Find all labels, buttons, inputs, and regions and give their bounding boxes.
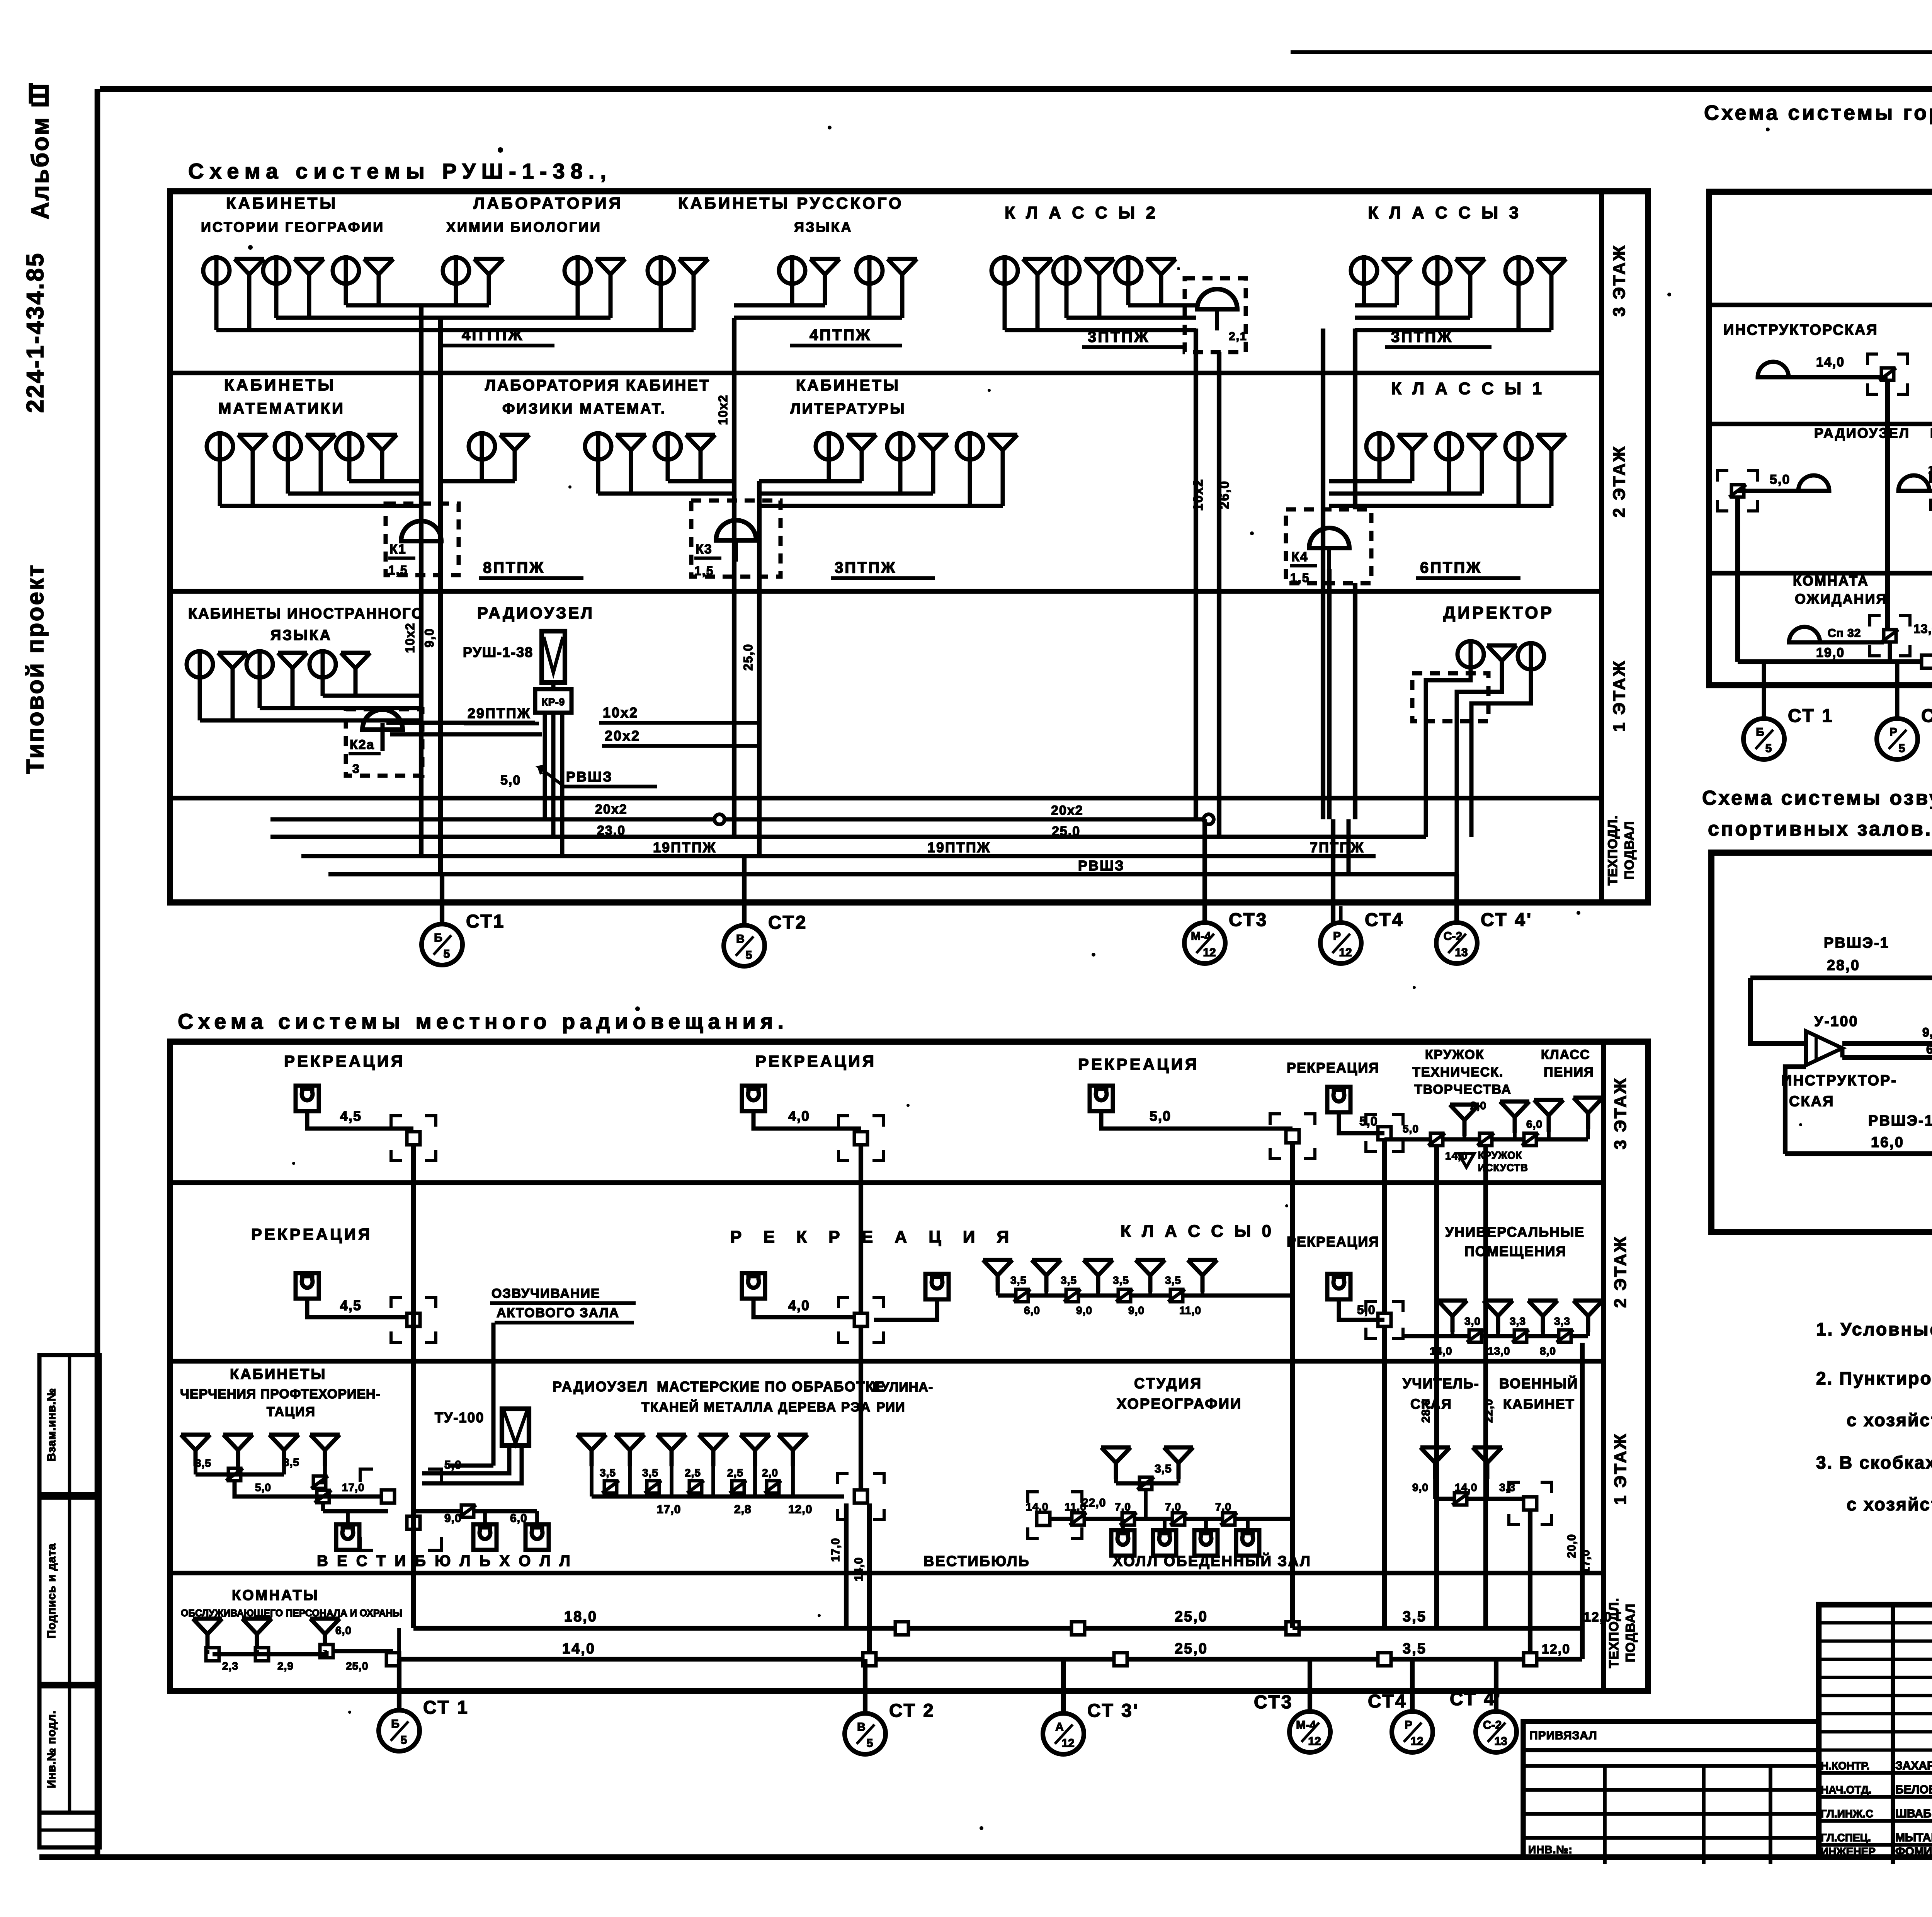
wire: [323, 1509, 388, 1514]
junction: [1064, 1289, 1081, 1302]
junction: [1524, 1653, 1537, 1666]
horn loudspeaker: [1758, 362, 1789, 377]
subscriber loudspeaker pair: [1115, 255, 1176, 291]
svg-text:6,0: 6,0: [510, 1512, 527, 1525]
wire: [421, 316, 611, 320]
box1 floor divider 1/basement: [170, 796, 1602, 800]
loudspeaker: [1438, 1301, 1467, 1332]
svg-text:3: 3: [352, 762, 360, 776]
loudspeaker: [1573, 1301, 1603, 1332]
svg-text:КОМНАТЫ: КОМНАТЫ: [232, 1587, 319, 1604]
svg-text:ТЕХПОДЛ.: ТЕХПОДЛ.: [1605, 815, 1620, 885]
svg-text:ПОДВАЛ: ПОДВАЛ: [1622, 821, 1637, 880]
svg-text:ПРИВЯЗАЛ: ПРИВЯЗАЛ: [1529, 1729, 1597, 1742]
svg-text:1 ЭТАЖ: 1 ЭТАЖ: [1611, 1432, 1630, 1505]
svg-text:КАБИНЕТЫ: КАБИНЕТЫ: [230, 1366, 327, 1382]
svg-text:14,0: 14,0: [1430, 1345, 1452, 1357]
relay K1 dome: [401, 521, 441, 541]
stub to CT3: [1202, 819, 1207, 923]
svg-text:10х2: 10х2: [716, 394, 730, 425]
basement bus 19ПТПЖ: [301, 854, 1376, 858]
loudspeaker: [1528, 1301, 1558, 1332]
director loudspeaker: [1487, 645, 1517, 677]
wire bus: [1384, 1137, 1588, 1142]
svg-text:К Л А С С Ы 2: К Л А С С Ы 2: [1005, 203, 1158, 222]
svg-text:СТУДИЯ: СТУДИЯ: [1134, 1376, 1202, 1392]
subscriber loudspeaker pair: [565, 255, 625, 291]
wall speaker: [526, 1524, 549, 1550]
svg-text:СТ 1: СТ 1: [423, 1697, 469, 1718]
stub to CT2: [742, 856, 747, 926]
svg-text:КАБИНЕТЫ ИНОСТРАННОГО: КАБИНЕТЫ ИНОСТРАННОГО: [188, 606, 424, 622]
svg-text:ПОДВАЛ: ПОДВАЛ: [1623, 1604, 1638, 1662]
loudspeaker: [1500, 1102, 1529, 1133]
wire: [1144, 1490, 1148, 1519]
wire: [759, 504, 1003, 508]
box3 floor divider 2/1: [1709, 422, 1932, 426]
svg-text:9,0: 9,0: [422, 628, 436, 647]
svg-text:ЧЕРЧЕНИЯ ПРОФТЕХОРИЕН-: ЧЕРЧЕНИЯ ПРОФТЕХОРИЕН-: [180, 1387, 381, 1401]
svg-text:25,0: 25,0: [741, 644, 755, 671]
subscriber loudspeaker pair: [1505, 431, 1566, 466]
subscriber loudspeaker pair: [655, 431, 715, 466]
amplifier У-100: [1806, 1031, 1842, 1065]
svg-text:12: 12: [1203, 946, 1216, 959]
junction: [730, 1481, 747, 1493]
svg-text:3,3: 3,3: [1554, 1315, 1570, 1327]
junction: [206, 1648, 219, 1661]
svg-text:12: 12: [1308, 1735, 1321, 1748]
riser kruzhok: [1434, 1146, 1439, 1628]
svg-text:2,5: 2,5: [685, 1467, 701, 1479]
svg-text:СТ3: СТ3: [1254, 1692, 1293, 1713]
svg-text:Р: Р: [1405, 1719, 1412, 1731]
station СТ2: [724, 909, 807, 966]
junction: [602, 1481, 619, 1493]
relay K4 dome: [1309, 528, 1349, 548]
svg-text:14,0: 14,0: [852, 1557, 865, 1581]
svg-text:11,0: 11,0: [1065, 1501, 1087, 1513]
junction: [1170, 1513, 1187, 1525]
central junction 2: [407, 1516, 420, 1529]
junction: [1467, 1330, 1484, 1342]
junction bracket right of masterskie: [838, 1473, 849, 1484]
station СТ 2: [1877, 702, 1932, 759]
svg-text:МЫТАРЕВА: МЫТАРЕВА: [1895, 1831, 1932, 1844]
junction: [1512, 1330, 1529, 1342]
loudspeaker: [1136, 1260, 1165, 1292]
junction: [1070, 1513, 1087, 1525]
stamp box Инв.№ подл.: [39, 1686, 100, 1813]
subscriber loudspeaker pair: [263, 255, 324, 291]
svg-text:РЕКРЕАЦИЯ: РЕКРЕАЦИЯ: [251, 1225, 372, 1243]
wall speaker: [1153, 1530, 1176, 1556]
station СТ3: [1184, 906, 1268, 964]
subscriber loudspeaker pair: [207, 431, 267, 466]
svg-text:ТАЦИЯ: ТАЦИЯ: [267, 1405, 316, 1419]
loudspeaker: [577, 1435, 606, 1466]
wire: [323, 694, 421, 698]
svg-text:ИСТОРИИ ГЕОГРАФИИ: ИСТОРИИ ГЕОГРАФИИ: [201, 219, 384, 235]
svg-text:ХИМИИ БИОЛОГИИ: ХИМИИ БИОЛОГИИ: [446, 219, 602, 235]
subscriber loudspeaker pair: [585, 431, 646, 466]
svg-text:7,0: 7,0: [1165, 1501, 1181, 1513]
loudspeaker: [1032, 1260, 1061, 1292]
wire bus kholl: [1043, 1517, 1291, 1521]
svg-text:11,0: 11,0: [1179, 1304, 1201, 1316]
junction: [1522, 1133, 1539, 1146]
svg-text:5,0: 5,0: [1359, 1114, 1378, 1128]
wire: [421, 303, 489, 308]
wire amp outputs: [1842, 1041, 1932, 1046]
svg-text:3,5: 3,5: [1113, 1274, 1129, 1286]
loudspeaker: [1083, 1260, 1113, 1292]
svg-text:7ПТПЖ: 7ПТПЖ: [1310, 839, 1364, 855]
svg-text:С-2: С-2: [1444, 930, 1462, 943]
svg-text:9,0: 9,0: [1922, 1025, 1932, 1039]
station СТ 3': [1043, 1697, 1139, 1754]
subscriber loudspeaker pair: [856, 255, 917, 291]
svg-text:Б: Б: [434, 931, 442, 944]
wire riser radiouzel: [1735, 497, 1740, 662]
svg-text:КАБИНЕТЫ: КАБИНЕТЫ: [226, 194, 338, 212]
svg-text:4ПТПЖ: 4ПТПЖ: [462, 327, 524, 344]
svg-text:ЛАБОРАТОРИЯ: ЛАБОРАТОРИЯ: [473, 194, 623, 212]
svg-text:В: В: [736, 933, 745, 945]
svg-text:1,5: 1,5: [1290, 571, 1310, 585]
svg-text:1 ЭТАЖ: 1 ЭТАЖ: [1610, 659, 1629, 732]
horn loudspeaker: [1898, 475, 1929, 491]
svg-text:М-4: М-4: [1296, 1719, 1316, 1731]
svg-text:К Л А С С Ы 3: К Л А С С Ы 3: [1368, 203, 1522, 222]
svg-text:5: 5: [401, 1734, 407, 1747]
svg-text:5: 5: [1899, 742, 1905, 755]
basement bus 20x2: [270, 817, 1209, 822]
stamp box empty cells: [39, 1813, 100, 1847]
svg-text:РВШЭ-1: РВШЭ-1: [1868, 1113, 1932, 1129]
riser kruzhok2: [1483, 1146, 1488, 1628]
svg-text:28,0: 28,0: [1420, 1399, 1432, 1423]
svg-text:5: 5: [867, 1737, 873, 1750]
relay K3 dashed box: [691, 501, 781, 577]
junction with bracket: [838, 1297, 849, 1308]
svg-text:20х2: 20х2: [605, 728, 640, 744]
riser CT2 trunk: [732, 318, 736, 837]
svg-text:У-100: У-100: [1814, 1013, 1859, 1030]
svg-text:1,5: 1,5: [388, 563, 408, 577]
loudspeaker: [181, 1435, 210, 1466]
stub to CT2: [863, 1659, 867, 1713]
svg-text:РВШЭ-1: РВШЭ-1: [1824, 935, 1889, 951]
box1 outline: [170, 191, 1648, 902]
wire: [288, 492, 421, 496]
wire: [235, 1473, 284, 1477]
riser rec4: [1382, 1140, 1387, 1313]
box2 floor divider 3/2: [170, 1180, 1604, 1185]
wire: [1339, 1112, 1384, 1133]
loudspeaker: [657, 1435, 686, 1466]
svg-text:12: 12: [1410, 1735, 1423, 1748]
svg-text:УЧИТЕЛЬ-: УЧИТЕЛЬ-: [1403, 1376, 1480, 1391]
subscriber loudspeaker pair: [203, 255, 264, 291]
svg-text:Р Е К Р Е А Ц И Я: Р Е К Р Е А Ц И Я: [730, 1227, 1017, 1246]
wall speaker: [336, 1524, 359, 1550]
loudspeaker: [1101, 1447, 1131, 1479]
loudspeaker: [1473, 1447, 1502, 1479]
svg-text:СТ1: СТ1: [466, 911, 505, 932]
svg-text:спортивных залов.: спортивных залов.: [1708, 818, 1932, 840]
wire: [200, 718, 421, 723]
svg-text:ПЕНИЯ: ПЕНИЯ: [1544, 1065, 1594, 1079]
wire: [1914, 489, 1932, 493]
cable joint: [1204, 814, 1214, 824]
wire: [346, 1511, 350, 1524]
junction: [315, 1490, 332, 1503]
svg-text:14,0: 14,0: [1026, 1501, 1049, 1513]
wire: [1355, 303, 1397, 308]
wire: [386, 721, 535, 725]
svg-text:ТЕХПОДЛ.: ТЕХПОДЛ.: [1607, 1598, 1621, 1668]
wire: [734, 316, 902, 320]
wall speaker: [1194, 1530, 1218, 1556]
svg-text:6,0: 6,0: [1526, 1118, 1543, 1130]
station СТ 1: [1743, 702, 1834, 759]
wire: [734, 303, 825, 308]
subscriber loudspeaker pair: [1424, 255, 1485, 291]
relay K4 dashed box: [1286, 509, 1371, 583]
svg-text:Схема системы городского радио: Схема системы городского радиовещания.: [1704, 101, 1932, 124]
wall speaker: [1090, 1086, 1113, 1111]
wire: [598, 492, 734, 496]
junction: [1037, 1512, 1050, 1525]
svg-text:18,0: 18,0: [564, 1609, 597, 1625]
svg-text:4,0: 4,0: [788, 1108, 810, 1124]
svg-text:РВШЗ: РВШЗ: [1078, 858, 1125, 873]
sheet top edge line (right half): [1291, 50, 1932, 54]
svg-text:ТЕХНИЧЕСК.: ТЕХНИЧЕСК.: [1412, 1065, 1503, 1079]
wire: [260, 706, 421, 710]
wires from radio unit: [543, 713, 547, 819]
svg-text:СТ 4': СТ 4': [1450, 1689, 1502, 1709]
svg-text:13: 13: [1455, 946, 1468, 959]
junction: [1220, 1513, 1237, 1525]
svg-text:СТ2: СТ2: [768, 913, 807, 933]
wire: [1355, 328, 1551, 332]
wire: [349, 479, 421, 484]
svg-text:РВШЗ: РВШЗ: [566, 769, 613, 785]
riser rec2: [859, 1145, 863, 1313]
box1 floor divider 3/2: [170, 371, 1602, 375]
junction: [1114, 1653, 1127, 1666]
svg-text:20х2: 20х2: [1051, 803, 1083, 818]
wire: [1005, 328, 1196, 332]
loudspeaker: [615, 1435, 645, 1466]
svg-text:23,0: 23,0: [597, 823, 626, 838]
svg-text:КАБИНЕТЫ: КАБИНЕТЫ: [224, 376, 336, 394]
svg-text:8ПТПЖ: 8ПТПЖ: [483, 559, 545, 576]
kruzhok iskusstv speaker: [1459, 1154, 1474, 1167]
station СТ 4': [1436, 906, 1532, 964]
box3 outline: [1709, 192, 1932, 685]
wire: [262, 1651, 327, 1654]
overline on III: [29, 83, 33, 104]
svg-text:ФИЗИКИ МАТЕМАТ.: ФИЗИКИ МАТЕМАТ.: [502, 401, 666, 417]
svg-text:14,0: 14,0: [562, 1641, 595, 1657]
svg-text:ГЛ.СПЕЦ.: ГЛ.СПЕЦ.: [1821, 1832, 1871, 1844]
junction: [311, 1476, 328, 1488]
wire: [759, 492, 933, 496]
relay K2a dome: [362, 710, 403, 730]
svg-text:3,5: 3,5: [600, 1467, 616, 1479]
svg-text:1,5: 1,5: [694, 564, 714, 578]
svg-text:МАТЕМАТИКИ: МАТЕМАТИКИ: [218, 400, 345, 417]
wire: [346, 303, 421, 308]
horn loudspeaker: [1798, 475, 1829, 491]
svg-text:5,0: 5,0: [255, 1481, 271, 1493]
box1 floor-label column divider: [1599, 191, 1604, 902]
svg-text:2,0: 2,0: [762, 1467, 778, 1479]
svg-text:29ПТПЖ: 29ПТПЖ: [468, 705, 531, 721]
svg-text:С-2: С-2: [1483, 1719, 1502, 1731]
wire: [1329, 492, 1482, 496]
riser CT3 trunk: [1194, 329, 1198, 819]
relay K2 dome: [1197, 289, 1237, 309]
subscriber loudspeaker pair: [336, 431, 397, 466]
svg-text:КАБИНЕТЫ: КАБИНЕТЫ: [796, 377, 900, 394]
stub to CT3': [1061, 1659, 1066, 1713]
svg-text:2 ЭТАЖ: 2 ЭТАЖ: [1610, 445, 1629, 518]
svg-text:3 ЭТАЖ: 3 ЭТАЖ: [1611, 1077, 1630, 1149]
wire drop to radiouzel: [492, 1323, 496, 1466]
loudspeaker: [1420, 1447, 1450, 1479]
svg-text:3,5: 3,5: [1403, 1609, 1427, 1625]
svg-text:ЯЗЫКА: ЯЗЫКА: [270, 627, 332, 644]
loudspeaker: [1188, 1260, 1217, 1292]
wire: [1888, 642, 1892, 662]
junction: [687, 1481, 704, 1493]
box3 floor divider 3/2: [1709, 303, 1932, 307]
svg-text:МАСТЕРСКИЕ ПО ОБРАБОТКЕ: МАСТЕРСКИЕ ПО ОБРАБОТКЕ: [657, 1379, 885, 1394]
junction: [764, 1481, 781, 1493]
svg-text:СТ4: СТ4: [1365, 910, 1404, 930]
svg-text:2,1: 2,1: [1229, 330, 1247, 343]
svg-text:20,0: 20,0: [1565, 1534, 1578, 1558]
svg-text:К3: К3: [696, 542, 713, 557]
riser CT1 trunk: [419, 305, 423, 856]
svg-text:8,0: 8,0: [1540, 1345, 1556, 1357]
station СТ3: [1254, 1692, 1330, 1752]
wire: [874, 1299, 937, 1320]
junction with bracket: [391, 1297, 402, 1308]
junction: [863, 1653, 876, 1666]
riser pair to basement: [844, 1503, 849, 1628]
riser uchitelskaya: [1528, 1510, 1532, 1659]
wire: [421, 328, 694, 332]
wire station drop: [1762, 685, 1766, 719]
wire: [753, 1299, 861, 1317]
riser CT4 trunk: [1321, 329, 1325, 819]
subscriber loudspeaker pair: [333, 255, 393, 291]
subscriber loudspeaker pair: [779, 255, 840, 291]
svg-text:РЕКРЕАЦИЯ: РЕКРЕАЦИЯ: [284, 1052, 405, 1070]
svg-text:КОМНАТА: КОМНАТА: [1793, 573, 1869, 589]
junction: [1378, 1653, 1391, 1666]
subscriber loudspeaker pair: [1436, 431, 1497, 466]
junction with bracket: [1270, 1114, 1281, 1125]
svg-text:ВЕСТИБЮЛЬ: ВЕСТИБЮЛЬ: [923, 1553, 1030, 1570]
basement bus lower: [393, 1657, 1582, 1662]
wire: [1329, 479, 1412, 484]
svg-text:5,0: 5,0: [1770, 472, 1790, 487]
svg-text:РЕКРЕАЦИЯ: РЕКРЕАЦИЯ: [1287, 1234, 1379, 1250]
svg-text:Схема системы озвучивания: Схема системы озвучивания: [1702, 787, 1932, 809]
device КР-9 box: [535, 689, 571, 713]
svg-text:ХОЛЛ ОБЕДЕННЫЙ ЗАЛ: ХОЛЛ ОБЕДЕННЫЙ ЗАЛ: [1113, 1552, 1311, 1570]
svg-text:14,0: 14,0: [1445, 1150, 1468, 1162]
svg-text:6ПТПЖ: 6ПТПЖ: [1420, 559, 1482, 576]
subscriber loudspeaker pair: [187, 649, 247, 684]
junction with bracket: [1931, 472, 1932, 483]
svg-text:КАБИНЕТЫ РУССКОГО: КАБИНЕТЫ РУССКОГО: [678, 194, 904, 212]
wire: [321, 1503, 325, 1511]
wire: [235, 1481, 323, 1496]
wire: [1750, 978, 1806, 1044]
svg-text:ОЖИДАНИЯ: ОЖИДАНИЯ: [1795, 591, 1887, 607]
wire ozv drop join: [448, 1464, 493, 1468]
title block left extension: [1523, 1721, 1819, 1857]
subscriber loudspeaker pair: [1505, 255, 1566, 291]
horn loudspeaker: [1789, 627, 1820, 642]
station СТ4: [1368, 1691, 1433, 1752]
svg-text:13: 13: [1494, 1735, 1507, 1748]
svg-text:3,0: 3,0: [1464, 1315, 1481, 1327]
svg-text:10х2: 10х2: [403, 622, 417, 653]
svg-text:КЛАСС: КЛАСС: [1541, 1047, 1590, 1062]
wire: [216, 328, 421, 332]
wire: [1785, 1151, 1932, 1156]
device РУШ-1-38 unit: [542, 631, 565, 683]
loudspeaker: [1573, 1098, 1603, 1129]
cable joint: [714, 814, 724, 824]
svg-text:7,0: 7,0: [1115, 1501, 1131, 1513]
relay K1 dashed box: [386, 504, 459, 575]
svg-text:ВОЕННЫЙ: ВОЕННЫЙ: [1499, 1375, 1578, 1391]
svg-text:5,0: 5,0: [1403, 1123, 1419, 1135]
wall speaker: [1327, 1274, 1350, 1299]
svg-text:4,5: 4,5: [340, 1108, 362, 1124]
wire: [307, 1299, 413, 1317]
basement bus upper right: [869, 1626, 1582, 1631]
svg-text:19,0: 19,0: [1816, 645, 1845, 660]
frame left edge: [95, 89, 100, 1857]
svg-text:13,0: 13,0: [1928, 464, 1932, 476]
junction: [226, 1468, 243, 1481]
station СТ4: [1320, 906, 1404, 964]
svg-text:К Л А С С Ы 1: К Л А С С Ы 1: [1391, 379, 1545, 398]
wire: [194, 1466, 197, 1474]
svg-text:РИИ: РИИ: [876, 1400, 905, 1415]
svg-text:ЛИТЕРАТУРЫ: ЛИТЕРАТУРЫ: [790, 401, 906, 417]
subscriber loudspeaker pair: [648, 255, 708, 291]
svg-text:9,0: 9,0: [444, 1512, 462, 1525]
svg-text:В Е С Т И Б Ю Л Ь Х О: В Е С Т И Б Ю Л Ь Х О Л Л: [317, 1553, 573, 1570]
svg-text:Р: Р: [1333, 930, 1341, 943]
junction with bracket: [838, 1116, 849, 1127]
junction: [1556, 1330, 1573, 1342]
junction with bracket: [1870, 616, 1881, 627]
wire: [759, 479, 862, 484]
svg-text:РАДИОУЗЕЛ: РАДИОУЗЕЛ: [477, 604, 594, 622]
